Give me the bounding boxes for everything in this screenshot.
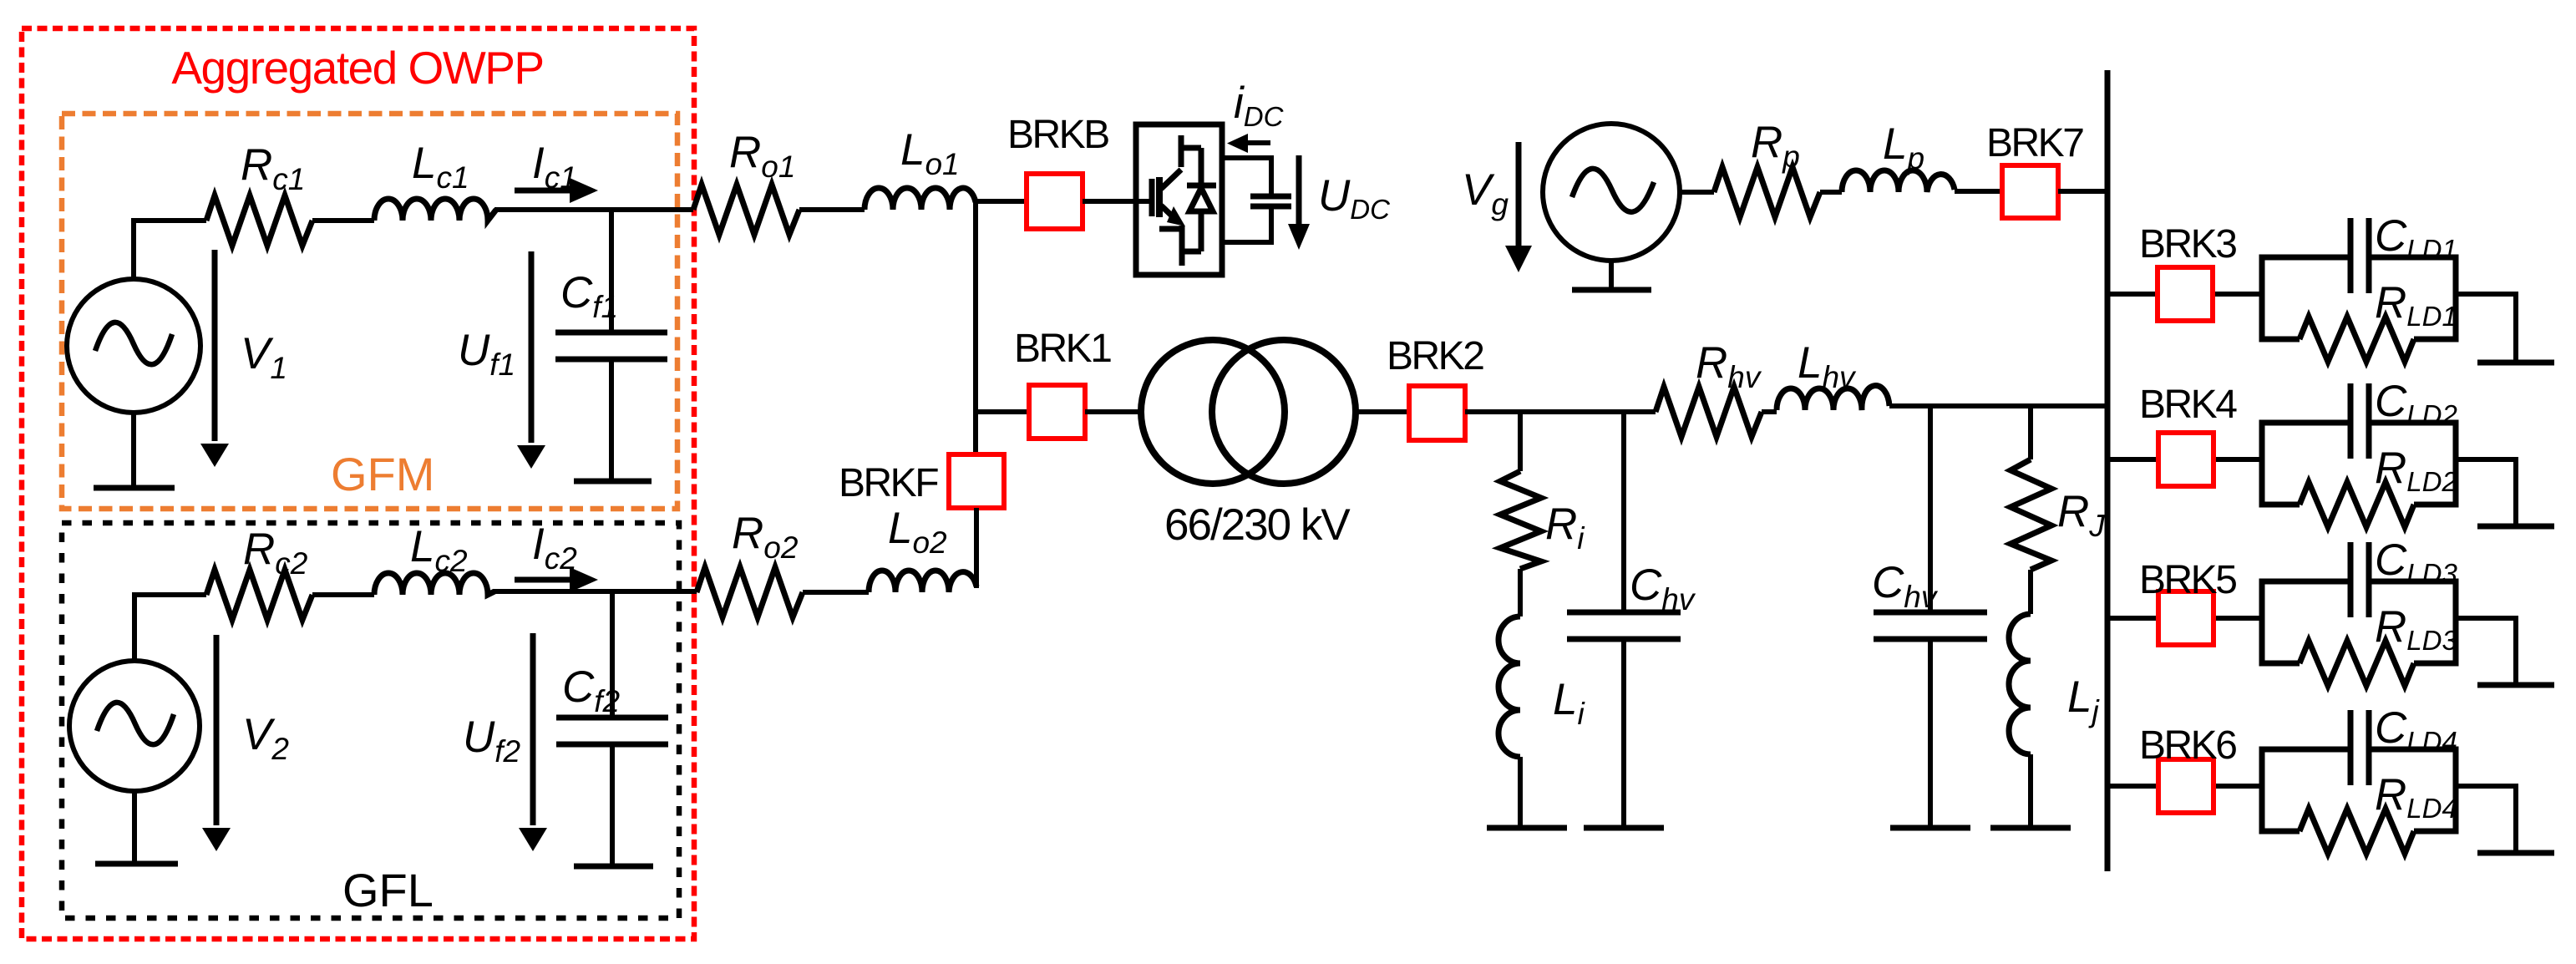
wire BRKF to Lo2 [974,508,979,588]
svg-text:Uf1: Uf1 [458,326,515,382]
wire node to BRKB [976,199,1027,204]
svg-text:BRK5: BRK5 [2139,558,2236,602]
capacitor CLD2 [2350,383,2369,459]
svg-text:Li: Li [1553,675,1585,731]
svg-text:RLD1: RLD1 [2375,278,2457,332]
resistor Rc1 [206,195,312,246]
converter box [1136,124,1222,275]
wire Lc2 to node and out to Ro2 [493,589,697,594]
node Cf1 tap [609,210,614,330]
ground Lj [1990,825,2071,831]
wire Ro1 to Lo1 [799,207,865,212]
svg-text:Rhv: Rhv [1696,338,1762,394]
wire BRK1 to transformer [1085,409,1143,414]
resistor Ro2 [697,567,803,617]
wire BRK2 to Rhv [1465,409,1656,414]
capacitor DC link [1250,196,1291,206]
source V2 [69,661,200,791]
ground Cf2 [574,864,653,870]
resistor Rhv [1656,387,1762,437]
wire node to BRK1 [976,409,1029,414]
svg-text:BRKF: BRKF [839,461,938,505]
capacitor Chv 1 [1567,612,1681,639]
inductor Lo1 [865,188,976,210]
wire Ro2 to Lo2 [803,590,869,595]
svg-text:Vg: Vg [1462,165,1509,221]
svg-text:Ic1: Ic1 [532,139,577,195]
wire Rc2 to Lc2 [312,592,374,597]
inductor Lp [1842,170,1955,192]
wire V2 to ground [132,791,137,864]
wire Chv tap 1 [1621,412,1626,610]
resistor Rj [2011,459,2051,570]
inductor Lj [2009,614,2031,754]
wire load 2 to ground [2456,459,2516,526]
arrow Uf2 [530,633,536,825]
wire Lj to ground [2028,754,2033,828]
resistor RLD2 [2300,482,2414,527]
ground load 1 [2477,360,2554,366]
svg-text:BRKB: BRKB [1007,113,1108,157]
breaker BRKF [949,454,1004,508]
wire Cf2 to ground [610,747,615,866]
ground load 2 [2477,524,2554,530]
ground Chv 2 [1890,825,1970,831]
ground Vg [1572,287,1651,293]
resistor RLD1 [2300,317,2414,362]
capacitor CLD4 [2350,710,2369,785]
wire transformer to BRK2 [1356,409,1409,414]
breaker BRK2 [1409,386,1465,440]
wire source V1 to Rc1 [134,221,206,279]
wire bus to BRK4 [2107,457,2262,462]
svg-text:Lhv: Lhv [1798,338,1857,394]
ground Li [1487,825,1567,831]
breaker BRKB [1027,174,1083,229]
diode inside converter [1187,148,1216,251]
resistor Rc2 [206,570,312,620]
svg-text:Lo1: Lo1 [900,125,960,181]
wire Chv tap 2 [1928,406,1933,610]
load 1 frame [2262,257,2456,339]
inductor Lc1 [374,199,496,221]
wire Cf1 to ground [609,362,614,481]
svg-text:iDC: iDC [1234,79,1285,132]
svg-text:66/230 kV: 66/230 kV [1164,500,1351,550]
wire load 3 to ground [2456,618,2516,685]
svg-text:BRK4: BRK4 [2139,383,2237,427]
svg-text:GFL: GFL [342,864,434,916]
svg-text:BRK6: BRK6 [2139,723,2236,768]
arrow V2 [214,635,220,825]
svg-text:Rc1: Rc1 [241,140,305,196]
capacitor Cf2 [556,718,668,744]
bus bar [2105,70,2111,871]
svg-text:RLD3: RLD3 [2375,602,2457,656]
wire Rhv to Lhv [1762,409,1777,414]
wire Lhv to bus [1889,403,2107,408]
arrow Vg [1516,142,1522,246]
svg-text:Chv: Chv [1630,561,1696,616]
svg-text:CLD2: CLD2 [2375,377,2457,430]
inductor Lc2 [374,573,494,595]
breaker BRK7 [2002,165,2058,218]
wire source V2 to Rc2 [134,595,206,661]
transformer 66/230 kV [1141,340,1285,484]
ground V1 [94,485,175,491]
load 4 frame [2262,749,2456,831]
wire bus to BRK6 [2107,784,2262,789]
node Cf2 tap [610,591,615,715]
arrow Ic2 [515,577,571,583]
svg-text:Ri: Ri [1545,500,1585,556]
load 3 frame [2262,581,2456,663]
wire Rj to Lj [2028,570,2033,614]
svg-text:Lo2: Lo2 [888,504,947,560]
capacitor CLD1 [2350,218,2369,293]
wire Chv 1 to ground [1621,642,1626,828]
resistor Ri [1500,471,1541,569]
wire V1 to ground [131,413,136,488]
wire load 4 to ground [2456,786,2516,853]
svg-text:CLD1: CLD1 [2375,211,2457,265]
svg-text:Aggregated OWPP: Aggregated OWPP [171,42,543,94]
wire load 1 to ground [2456,294,2516,363]
ground Chv 1 [1584,825,1664,831]
dashed box GFL [62,523,679,918]
wire Lp to BRK7 [1955,189,2002,194]
arrow iDC [1247,140,1270,145]
svg-text:Uf2: Uf2 [463,713,521,769]
svg-text:Rp: Rp [1751,118,1800,174]
inductor Lhv [1777,386,1889,410]
svg-text:Ro1: Ro1 [729,128,795,184]
svg-text:Lp: Lp [1883,119,1924,175]
wire Rc1 to Lc1 [312,218,374,223]
ground load 4 [2477,850,2554,856]
wire Vg to Rp [1680,190,1714,195]
wire Lc1 to node and out to Ro1 [494,207,693,212]
svg-text:BRK3: BRK3 [2139,222,2236,266]
capacitor Chv 2 [1874,612,1987,639]
svg-text:V2: V2 [242,710,289,766]
inductor Li [1498,616,1520,757]
svg-text:RLD4: RLD4 [2375,770,2457,824]
dashed box GFM [62,114,677,509]
resistor RLD3 [2300,641,2414,686]
breaker BRK5 [2158,591,2213,645]
dashed box Aggregated OWPP [22,28,694,939]
breaker BRK6 [2158,759,2213,813]
capacitor CLD3 [2350,542,2369,617]
resistor RLD4 [2300,809,2414,854]
svg-text:Rc2: Rc2 [243,525,308,581]
svg-text:Lc2: Lc2 [410,522,468,578]
arrow V1 [212,250,218,441]
svg-text:GFM: GFM [331,448,434,500]
ground Cf1 [574,479,652,485]
svg-text:V1: V1 [241,329,287,385]
inductor Lo2 [869,571,976,592]
arrow UDC [1296,155,1302,225]
wire Li to ground [1518,757,1523,828]
ground V2 [95,861,178,867]
svg-text:RLD2: RLD2 [2375,444,2457,497]
svg-text:Ro2: Ro2 [732,509,799,565]
wire Ri tap [1518,412,1523,471]
svg-text:CLD3: CLD3 [2375,535,2457,589]
wire Rp to Lp [1820,190,1842,195]
breaker BRK1 [1029,385,1085,439]
svg-text:Lj: Lj [2067,672,2100,728]
breaker BRK4 [2158,433,2213,486]
wire Chv 2 to ground [1928,642,1933,828]
resistor Rp [1714,167,1820,217]
wire bus to BRK3 [2107,292,2262,297]
ground load 3 [2477,682,2554,688]
wire BRKB to converter [1083,199,1152,204]
wire Ri to Li [1518,569,1523,616]
svg-text:CLD4: CLD4 [2375,703,2457,757]
dc link wires [1222,158,1271,242]
wire bus to BRK5 [2107,616,2262,621]
wire Rj tap [2028,406,2033,459]
arrow Uf1 [529,251,535,443]
svg-text:BRK2: BRK2 [1387,334,1483,378]
wire Vg to ground [1609,261,1614,290]
wire BRK7 to bus [2058,189,2107,194]
svg-text:Lc1: Lc1 [412,139,469,195]
svg-text:RJ: RJ [2057,487,2105,543]
load 2 frame [2262,423,2456,505]
resistor Ro1 [693,185,799,235]
transistor IGBT inside converter [1149,179,1155,216]
arrow Ic1 [515,188,571,194]
source Vg [1543,124,1680,261]
node vertical wire [973,202,978,454]
svg-text:UDC: UDC [1318,171,1391,225]
svg-text:Ic2: Ic2 [532,520,577,576]
capacitor Cf1 [555,332,667,359]
svg-text:BRK7: BRK7 [1986,121,2083,165]
svg-text:BRK1: BRK1 [1014,327,1111,371]
breaker BRK3 [2158,267,2213,321]
source V1 [67,279,200,413]
